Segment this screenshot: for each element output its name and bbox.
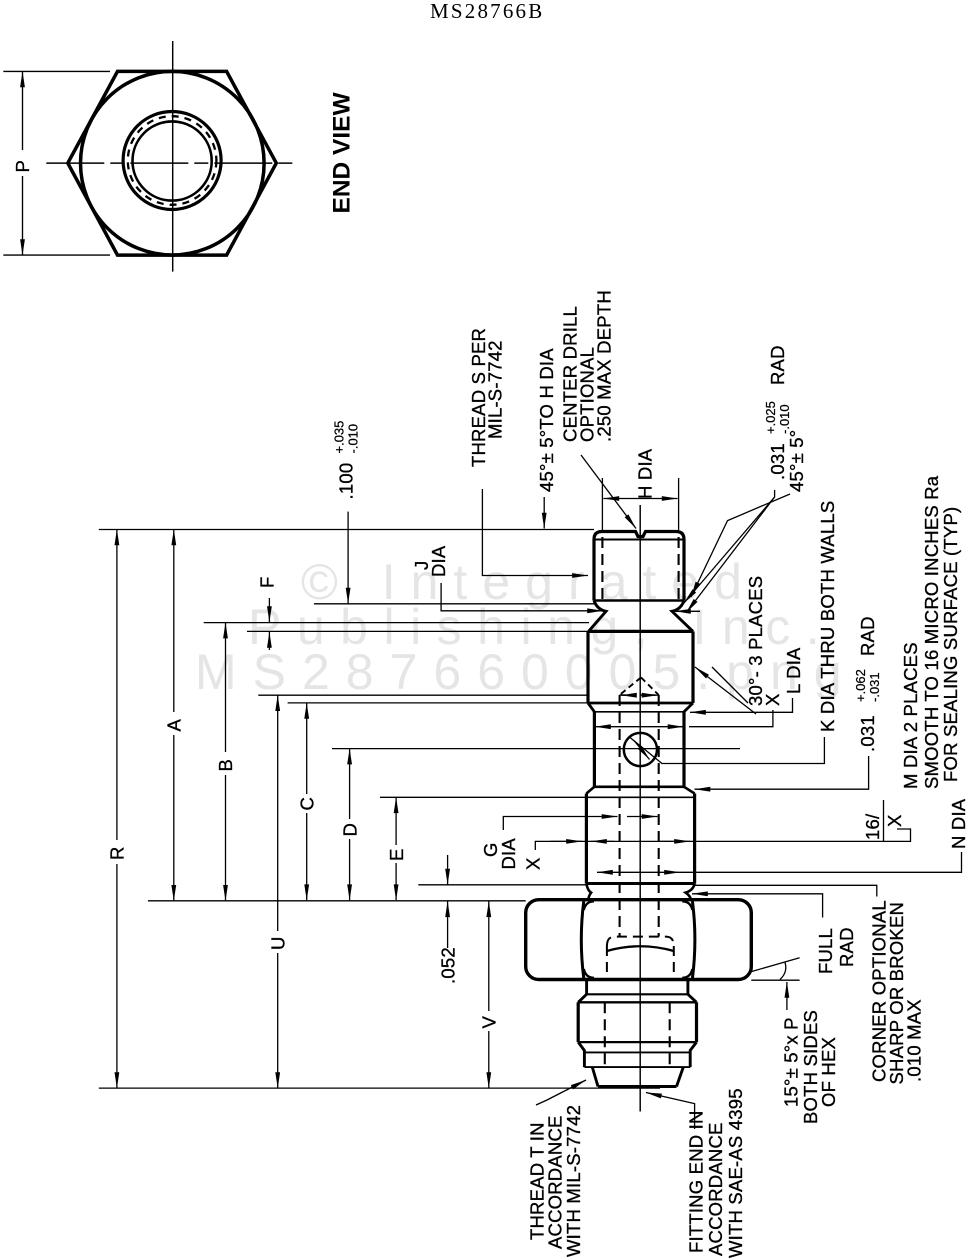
svg-text:END VIEW: END VIEW bbox=[329, 91, 356, 213]
flare cone left bbox=[592, 1067, 598, 1086]
K to M chamfer left bbox=[586, 787, 594, 794]
dimension V upper bbox=[488, 901, 490, 1011]
G DIA second arrow bbox=[627, 816, 658, 818]
svg-text:OF HEX: OF HEX bbox=[818, 1037, 839, 1107]
cone base arrow right bbox=[647, 694, 658, 696]
svg-text:X: X bbox=[884, 814, 905, 827]
leader 45 deg to H DIA bbox=[543, 497, 545, 529]
thread T walls bbox=[578, 1002, 696, 1042]
L to K chamfer left bbox=[588, 703, 594, 712]
label .031 +.025 -.010 RAD bbox=[763, 345, 792, 480]
svg-text:U: U bbox=[268, 936, 289, 950]
leader L DIA bbox=[690, 698, 793, 712]
dimension D lower bbox=[349, 839, 351, 900]
dimension B upper bbox=[225, 623, 227, 752]
M DIA dimension line across bbox=[535, 829, 910, 850]
svg-text:WITH SAE-AS 4395: WITH SAE-AS 4395 bbox=[725, 1088, 746, 1258]
X dimension arrows bbox=[595, 726, 684, 728]
dimension E upper bbox=[395, 797, 397, 845]
svg-text:FITTING END IN: FITTING END IN bbox=[686, 1110, 707, 1253]
leader .031 rad upper bbox=[684, 490, 775, 603]
svg-text:30°- 3 PLACES: 30°- 3 PLACES bbox=[745, 576, 766, 706]
svg-text:E: E bbox=[386, 848, 407, 861]
leader 30 deg line a bbox=[695, 667, 756, 714]
dimension U upper bbox=[277, 695, 279, 931]
L to K chamfer right bbox=[684, 703, 693, 712]
end view inscribed circle bbox=[81, 71, 265, 255]
undercut right bbox=[686, 884, 695, 900]
extension line thread S bottom bbox=[314, 603, 594, 605]
15 deg angle line bbox=[750, 958, 800, 972]
svg-text:L DIA: L DIA bbox=[783, 647, 804, 694]
svg-text:.031: .031 bbox=[767, 443, 788, 480]
svg-text:DIA: DIA bbox=[498, 838, 519, 870]
thread S bottom edge bbox=[594, 599, 684, 602]
K section walls bbox=[594, 712, 684, 787]
K cross hole bbox=[624, 733, 657, 766]
M DIA arrows at left edge bbox=[550, 840, 582, 842]
X dimension bracket bbox=[689, 710, 773, 727]
leader G DIA bbox=[503, 817, 617, 831]
svg-text:MS28766B: MS28766B bbox=[430, 0, 544, 23]
end view thread dashed circle bbox=[128, 116, 217, 205]
svg-text:X: X bbox=[523, 857, 544, 870]
svg-text:45°± 5°TO H DIA: 45°± 5°TO H DIA bbox=[536, 348, 557, 492]
hex internal bore arc bbox=[607, 946, 674, 951]
M section bottom edge sealing face bbox=[586, 882, 694, 885]
flare cone right bbox=[677, 1067, 684, 1086]
dimension F lower bbox=[268, 632, 270, 650]
svg-text:F: F bbox=[257, 576, 278, 588]
extension line hole center bbox=[332, 748, 740, 750]
end view bore outer circle bbox=[123, 112, 221, 210]
svg-text:-.010: -.010 bbox=[777, 404, 792, 434]
dimension A upper bbox=[173, 530, 175, 713]
dimension P line upper bbox=[22, 71, 24, 150]
H DIA dimension line bbox=[603, 498, 677, 500]
svg-text:K DIA THRU BOTH WALLS: K DIA THRU BOTH WALLS bbox=[817, 501, 838, 732]
fitting bottom edge bbox=[598, 1085, 677, 1088]
dimension R lower bbox=[116, 864, 118, 1088]
neck below hex left bbox=[578, 980, 586, 1003]
internal cone dashed left bbox=[620, 677, 641, 695]
leader .031 rad lower bbox=[686, 497, 775, 613]
thread S minor dia dashed right bbox=[678, 537, 680, 600]
finish symbol underline bbox=[883, 800, 885, 841]
hex inner fillet top-left bbox=[584, 901, 594, 910]
sealing face extension right bbox=[695, 885, 877, 896]
dimension E lower bbox=[395, 863, 397, 900]
N DIA dimension line bbox=[597, 871, 680, 873]
end view horizontal center line bbox=[46, 162, 297, 164]
svg-text:RAD: RAD bbox=[857, 616, 878, 656]
internal cone dashed right bbox=[641, 677, 659, 695]
15 deg angle arc bbox=[780, 963, 786, 980]
K section bottom edge bbox=[594, 785, 684, 788]
L section outline bbox=[588, 631, 693, 703]
undercut left bbox=[586, 884, 591, 900]
svg-text:H DIA: H DIA bbox=[635, 448, 656, 499]
thread T minor dashed left bbox=[604, 1002, 606, 1067]
dimension V lower bbox=[488, 1031, 490, 1088]
svg-text:-.031: -.031 bbox=[867, 672, 882, 702]
thread T chamfer left bbox=[578, 1042, 584, 1067]
thread S chamfer ring line bbox=[595, 539, 683, 541]
full rad leader bbox=[692, 894, 823, 918]
svg-text:N DIA: N DIA bbox=[948, 798, 967, 849]
svg-text:RAD: RAD bbox=[767, 345, 788, 385]
cone base arrow left bbox=[621, 694, 632, 696]
thread minor dashed left long bbox=[619, 695, 621, 937]
part axis center line bbox=[639, 505, 641, 1112]
dimension R upper bbox=[116, 530, 118, 841]
svg-text:MIL-S-7742: MIL-S-7742 bbox=[485, 340, 506, 439]
svg-text:P: P bbox=[12, 160, 33, 173]
leader center drill bbox=[581, 455, 636, 529]
end view bore inner circle bbox=[133, 121, 212, 200]
dimension C lower bbox=[306, 813, 308, 900]
svg-text:45°± 5°: 45°± 5° bbox=[786, 430, 807, 492]
svg-text:+.035: +.035 bbox=[332, 421, 347, 454]
svg-text:ACCORDANCE: ACCORDANCE bbox=[705, 1122, 726, 1256]
dimension D upper bbox=[349, 749, 351, 819]
svg-text:X: X bbox=[762, 693, 783, 706]
dimension A lower bbox=[173, 735, 175, 901]
hex counterbore dashed top bbox=[607, 937, 674, 946]
dimension .052 lower bbox=[447, 901, 449, 948]
leader THREAD S bbox=[482, 489, 588, 576]
extension line bottom bbox=[99, 1087, 660, 1089]
leader J DIA bracket bbox=[441, 583, 603, 611]
extension line cone base bbox=[258, 694, 588, 696]
label .100 with tolerance bbox=[332, 421, 361, 500]
svg-text:M DIA 2 PLACES: M DIA 2 PLACES bbox=[900, 642, 921, 789]
leader FITTING END bbox=[646, 1093, 695, 1130]
svg-text:+.025: +.025 bbox=[763, 401, 778, 434]
hex bottom extension right bbox=[751, 979, 799, 981]
15 deg leader arrow bbox=[786, 982, 788, 1010]
svg-text:.250 MAX DEPTH: .250 MAX DEPTH bbox=[594, 290, 615, 442]
svg-text:FULL: FULL bbox=[815, 928, 836, 974]
svg-text:B: B bbox=[215, 759, 236, 772]
K section top edge bbox=[594, 711, 684, 713]
svg-text:15°± 5°x P: 15°± 5°x P bbox=[781, 1017, 802, 1107]
svg-text:D: D bbox=[340, 823, 361, 837]
svg-text:16/: 16/ bbox=[862, 813, 883, 840]
extension line sealing face left bbox=[418, 884, 586, 886]
hex face boundary right bbox=[692, 901, 695, 979]
thread minor dashed right long bbox=[658, 695, 660, 937]
svg-text:.100: .100 bbox=[336, 463, 357, 500]
end view vertical center line bbox=[172, 41, 174, 272]
extension line L bottom bbox=[288, 702, 588, 704]
dimension U lower bbox=[277, 953, 279, 1088]
M section top edge bbox=[586, 796, 694, 798]
J DIA right arrow bbox=[675, 610, 700, 612]
dimension B lower bbox=[225, 775, 227, 901]
svg-text:R: R bbox=[107, 846, 128, 860]
hex counterbore dashed left wall bbox=[606, 946, 608, 979]
leader 45 deg right bbox=[691, 494, 790, 597]
hex inner fillet top-right bbox=[682, 901, 692, 910]
M section walls bbox=[586, 794, 694, 884]
extension line part top bbox=[99, 529, 594, 531]
svg-text:A: A bbox=[164, 719, 185, 732]
svg-text:DIA: DIA bbox=[428, 545, 449, 577]
K DIA arrow bbox=[634, 741, 650, 760]
neck groove right bbox=[672, 601, 693, 632]
H DIA extension right bbox=[678, 478, 680, 530]
hex inner fillet bottom-right bbox=[682, 969, 692, 978]
H DIA extension left bbox=[601, 478, 603, 530]
svg-text:.031: .031 bbox=[857, 715, 878, 752]
dimension .100 leader bbox=[347, 512, 349, 604]
thread T top edge bbox=[578, 1001, 696, 1003]
leader 30 deg line b bbox=[712, 667, 748, 703]
neck bottom line bbox=[587, 993, 688, 995]
end view top extension line bbox=[3, 70, 110, 72]
thread T lower edge bbox=[578, 1041, 696, 1043]
end view bottom extension line bbox=[3, 254, 110, 256]
leader K DIA bbox=[630, 737, 824, 764]
thread T chamfer right bbox=[690, 1042, 696, 1067]
hex counterbore dashed right wall bbox=[673, 946, 675, 979]
K to M chamfer right bbox=[684, 787, 695, 794]
internal cone base dashed bbox=[620, 694, 659, 696]
dimension F upper bbox=[268, 598, 270, 622]
thread S minor dia dashed left bbox=[601, 537, 603, 600]
svg-text:V: V bbox=[479, 1016, 500, 1029]
svg-text:FOR SEALING SURFACE (TYP): FOR SEALING SURFACE (TYP) bbox=[940, 507, 961, 782]
thread S cylinder outline bbox=[594, 532, 684, 601]
thread T minor dashed right bbox=[669, 1002, 671, 1067]
flare top line bbox=[584, 1066, 690, 1068]
svg-text:SMOOTH TO 16 MICRO INCHES Ra: SMOOTH TO 16 MICRO INCHES Ra bbox=[921, 475, 942, 789]
svg-text:RAD: RAD bbox=[836, 927, 857, 967]
flare shoulder line bbox=[584, 1051, 690, 1053]
neck groove left bbox=[589, 601, 607, 632]
extension line groove bottom bbox=[204, 622, 589, 624]
extension line K bottom bbox=[380, 796, 586, 798]
dimension .052 upper bbox=[447, 855, 449, 885]
svg-text:C: C bbox=[297, 797, 318, 811]
extension line L top bbox=[247, 630, 588, 632]
end view hexagon bbox=[68, 71, 276, 255]
neck below hex right bbox=[688, 980, 697, 1003]
dimension C upper bbox=[306, 703, 308, 794]
svg-text:.052: .052 bbox=[438, 947, 459, 984]
L section bottom edge bbox=[588, 702, 693, 705]
svg-text:.010 MAX: .010 MAX bbox=[904, 999, 925, 1082]
dimension P line lower bbox=[22, 176, 24, 255]
svg-text:WITH MIL-S-7742: WITH MIL-S-7742 bbox=[563, 1105, 584, 1257]
extension line hex top bbox=[148, 900, 526, 902]
svg-text:-.010: -.010 bbox=[346, 424, 361, 454]
leader THREAD T bbox=[536, 1080, 586, 1105]
label .031 +.062 -.031 RAD bbox=[853, 616, 882, 752]
M DIA arrows at right edge bbox=[660, 840, 690, 842]
hex outline bbox=[526, 900, 752, 980]
hex face boundary left bbox=[581, 901, 584, 979]
svg-text:+.062: +.062 bbox=[853, 669, 868, 702]
hex inner fillet bottom-left bbox=[584, 969, 594, 978]
leader .031 .062 rad bbox=[695, 756, 869, 789]
